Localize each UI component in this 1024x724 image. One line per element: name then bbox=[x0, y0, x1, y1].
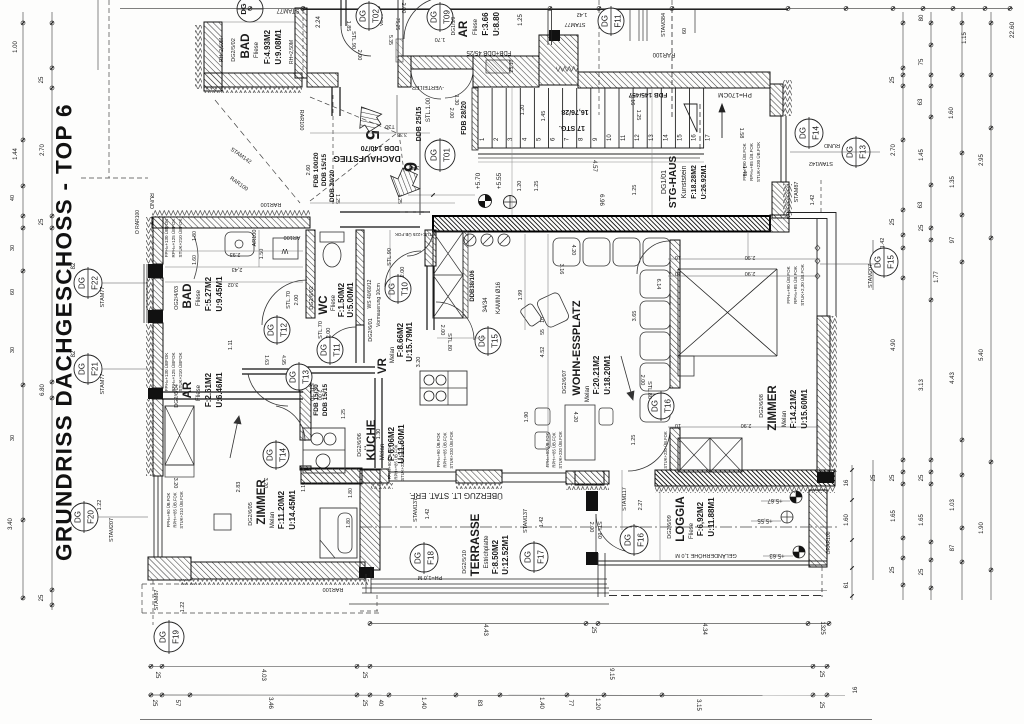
corridor south wall west part bbox=[152, 217, 310, 228]
svg-text:25: 25 bbox=[890, 218, 896, 225]
svg-text:DG: DG bbox=[601, 15, 610, 27]
svg-text:F15: F15 bbox=[887, 255, 896, 269]
svg-text:4.43: 4.43 bbox=[482, 624, 488, 636]
scan edge line bottom bbox=[140, 719, 872, 721]
svg-text:DG: DG bbox=[874, 256, 883, 268]
svg-text:6.14: 6.14 bbox=[655, 279, 661, 290]
svg-text:2.00: 2.00 bbox=[326, 328, 332, 339]
svg-text:25: 25 bbox=[871, 474, 877, 481]
svg-text:F:11.20M2: F:11.20M2 bbox=[277, 490, 286, 529]
svg-text:2.00: 2.00 bbox=[439, 325, 445, 336]
svg-text:STL.80: STL.80 bbox=[646, 381, 652, 399]
svg-text:U:9.08M1: U:9.08M1 bbox=[274, 29, 283, 65]
svg-text:DG: DG bbox=[430, 11, 439, 23]
svg-text:1.30: 1.30 bbox=[376, 429, 382, 440]
svg-text:RAR100: RAR100 bbox=[323, 586, 344, 592]
svg-text:1.63: 1.63 bbox=[263, 355, 269, 365]
ref circle DG T14 bbox=[263, 442, 289, 468]
svg-text:KAMIN Ø16: KAMIN Ø16 bbox=[496, 281, 502, 314]
svg-text:F18: F18 bbox=[427, 551, 436, 565]
loggia door arc F16 bbox=[596, 514, 634, 552]
dimension chain right col4 bbox=[990, 12, 992, 600]
interior dim lines BAD left bbox=[165, 250, 303, 252]
svg-text:+5.67: +5.67 bbox=[767, 497, 783, 503]
svg-text:DG: DG bbox=[430, 149, 439, 161]
nightstand bbox=[214, 514, 231, 530]
svg-text:DDB 140/70: DDB 140/70 bbox=[361, 144, 400, 151]
svg-text:2.24: 2.24 bbox=[316, 16, 322, 28]
svg-text:25: 25 bbox=[919, 474, 925, 481]
washbasin BAD left bbox=[225, 232, 254, 256]
svg-text:LOGGIA: LOGGIA bbox=[675, 496, 687, 541]
ref circle DG T16 bbox=[648, 393, 674, 419]
svg-text:STG-HAUS: STG-HAUS bbox=[668, 156, 679, 209]
svg-text:RPH=+85 ÜB.FOK: RPH=+85 ÜB.FOK bbox=[173, 492, 178, 527]
svg-text:TERRASSE: TERRASSE bbox=[470, 513, 482, 576]
svg-text:75: 75 bbox=[919, 58, 925, 65]
svg-text:1.25: 1.25 bbox=[632, 185, 638, 196]
svg-text:16,76/28: 16,76/28 bbox=[561, 108, 588, 115]
svg-text:FPH=+90 ÜB.FOK: FPH=+90 ÜB.FOK bbox=[436, 432, 441, 467]
svg-text:F:3.66: F:3.66 bbox=[481, 12, 490, 36]
svg-text:60: 60 bbox=[682, 28, 688, 34]
dim line BAD top bbox=[222, 21, 295, 23]
level mark circle bbox=[504, 196, 517, 209]
svg-text:25: 25 bbox=[919, 224, 925, 231]
svg-text:1.80: 1.80 bbox=[192, 231, 198, 241]
svg-text:U:9.45M1: U:9.45M1 bbox=[215, 276, 224, 312]
AR west wall lines bbox=[397, 0, 399, 56]
dimension chain top bbox=[120, 8, 1013, 10]
svg-text:1.90: 1.90 bbox=[524, 412, 530, 423]
svg-text:1.65: 1.65 bbox=[891, 510, 897, 522]
svg-text:DG: DG bbox=[651, 400, 660, 412]
svg-text:DG: DG bbox=[267, 324, 276, 336]
svg-text:U:8.80: U:8.80 bbox=[492, 11, 501, 36]
svg-text:BAD: BAD bbox=[182, 284, 194, 309]
svg-text:25: 25 bbox=[151, 700, 157, 707]
svg-text:STUK+230 ÜB.FOK: STUK+230 ÜB.FOK bbox=[663, 431, 668, 469]
svg-text:T02: T02 bbox=[372, 9, 381, 23]
svg-text:DACHAUFSTIEG: DACHAUFSTIEG bbox=[333, 154, 401, 164]
svg-text:75,25: 75,25 bbox=[394, 18, 400, 31]
right wall glazing upper bbox=[816, 218, 818, 316]
svg-text:1.35: 1.35 bbox=[950, 176, 956, 188]
door arc T16 bbox=[628, 429, 670, 471]
svg-text:1.42: 1.42 bbox=[425, 509, 431, 520]
loggia dashed bbox=[821, 567, 823, 597]
wall stub left of T02 door bbox=[340, 0, 342, 26]
svg-text:T15: T15 bbox=[491, 334, 500, 348]
svg-text:25: 25 bbox=[890, 474, 896, 481]
svg-text:DG: DG bbox=[289, 371, 298, 383]
svg-text:63: 63 bbox=[918, 201, 924, 208]
svg-text:STAM207: STAM207 bbox=[868, 264, 874, 288]
svg-text:1.10: 1.10 bbox=[301, 482, 307, 492]
terrace dashed edge bbox=[376, 595, 378, 611]
svg-text:16: 16 bbox=[853, 686, 859, 693]
svg-text:F:14.21M2: F:14.21M2 bbox=[789, 389, 798, 428]
svg-text:STL.90: STL.90 bbox=[350, 31, 356, 49]
vent circles bbox=[464, 234, 476, 246]
svg-text:F22: F22 bbox=[91, 276, 100, 290]
sofa right column bbox=[640, 270, 670, 298]
dimension chain bottom row1 bbox=[148, 665, 830, 667]
right exterior wall lower bbox=[817, 316, 830, 472]
svg-text:10: 10 bbox=[607, 134, 613, 141]
svg-text:T01: T01 bbox=[443, 148, 452, 162]
loggia west door blocks bbox=[586, 491, 598, 511]
svg-text:DG2/6/04: DG2/6/04 bbox=[174, 384, 180, 408]
svg-text:Vormauerung 10cm: Vormauerung 10cm bbox=[376, 283, 382, 327]
svg-text:DG: DG bbox=[414, 552, 423, 564]
svg-text:16: 16 bbox=[692, 134, 698, 141]
svg-text:6.96: 6.96 bbox=[598, 194, 604, 206]
dimension chain right col2 bbox=[930, 12, 932, 600]
svg-text:+5.70: +5.70 bbox=[475, 172, 482, 189]
partition BAD-AR horizontal bbox=[163, 391, 303, 393]
svg-text:F:4.93M2: F:4.93M2 bbox=[263, 29, 272, 64]
svg-text:30: 30 bbox=[10, 347, 16, 353]
ridge dash-dot line bbox=[360, 526, 840, 528]
svg-text:DG2/6/06: DG2/6/06 bbox=[357, 433, 363, 457]
svg-text:FPH=+90 ÜB.FOK: FPH=+90 ÜB.FOK bbox=[545, 432, 550, 467]
ref circle DG F17 bbox=[520, 543, 548, 571]
svg-text:22.60: 22.60 bbox=[1009, 21, 1016, 38]
svg-text:25: 25 bbox=[890, 76, 896, 83]
svg-text:F:8.66M2: F:8.66M2 bbox=[396, 322, 405, 357]
ref circle DG T11 bbox=[317, 337, 343, 363]
interior dim lines loggia bbox=[621, 470, 623, 530]
svg-text:1325: 1325 bbox=[819, 621, 825, 635]
south band WOHN windows bbox=[301, 469, 389, 483]
svg-text:T11: T11 bbox=[333, 343, 342, 357]
svg-text:3.20: 3.20 bbox=[262, 478, 268, 489]
svg-text:STAM117: STAM117 bbox=[622, 487, 628, 511]
svg-text:DG: DG bbox=[359, 10, 368, 22]
svg-text:STUK+225 ÜB.FOK: STUK+225 ÜB.FOK bbox=[395, 232, 435, 238]
svg-text:1.20: 1.20 bbox=[517, 181, 523, 192]
svg-text:2.00: 2.00 bbox=[356, 50, 362, 61]
svg-text:30: 30 bbox=[10, 245, 16, 251]
svg-text:PH=170CM: PH=170CM bbox=[718, 91, 752, 98]
door arc T14 bbox=[276, 406, 305, 441]
svg-text:DG: DG bbox=[78, 363, 87, 375]
svg-text:STAM142: STAM142 bbox=[809, 160, 833, 166]
svg-text:1.45: 1.45 bbox=[541, 111, 547, 122]
svg-text:T30: T30 bbox=[385, 123, 394, 129]
svg-text:1.45: 1.45 bbox=[919, 149, 925, 161]
door arc T15 bbox=[436, 302, 474, 340]
svg-text:3.38: 3.38 bbox=[397, 131, 407, 137]
svg-text:STUK+230 ÜB.FOK: STUK+230 ÜB.FOK bbox=[558, 431, 563, 469]
svg-text:AR: AR bbox=[182, 381, 194, 398]
svg-text:T16: T16 bbox=[664, 399, 673, 413]
stair direction triangle bbox=[684, 104, 697, 132]
heavy black wall south of stair bbox=[433, 216, 770, 232]
svg-text:5.40: 5.40 bbox=[979, 349, 985, 361]
kitchen cooktop block bbox=[420, 371, 467, 405]
svg-text:RPH=+85 ÜB.FOK: RPH=+85 ÜB.FOK bbox=[552, 432, 557, 467]
svg-text:U:11.88M1: U:11.88M1 bbox=[707, 497, 716, 537]
partition VR-KUECHE bbox=[303, 366, 375, 368]
svg-text:1.40: 1.40 bbox=[420, 697, 426, 709]
svg-text:U:15.60M1: U:15.60M1 bbox=[800, 389, 809, 429]
svg-text:STAM87: STAM87 bbox=[794, 182, 800, 203]
svg-text:1.42: 1.42 bbox=[539, 517, 545, 528]
svg-text:Fliese: Fliese bbox=[254, 41, 260, 58]
svg-text:F11: F11 bbox=[614, 14, 623, 28]
svg-text:4.52: 4.52 bbox=[540, 347, 546, 358]
svg-text:STUK+230 ÜB.FOK: STUK+230 ÜB.FOK bbox=[400, 443, 405, 481]
svg-text:RUND: RUND bbox=[824, 142, 840, 148]
svg-text:FPH=+90 ÜB.FOK: FPH=+90 ÜB.FOK bbox=[741, 143, 747, 180]
svg-text:STAM77: STAM77 bbox=[100, 287, 106, 308]
stair right window bbox=[780, 116, 782, 182]
bed ZIMMER right X boxes bbox=[678, 438, 742, 472]
ref circle DG T15 bbox=[475, 328, 501, 354]
bottom wall of ZIMMER left bbox=[191, 562, 365, 579]
svg-text:STUK+230 ÜB.FOK: STUK+230 ÜB.FOK bbox=[449, 431, 454, 469]
left exterior wall bbox=[153, 217, 163, 264]
svg-text:25: 25 bbox=[39, 594, 45, 601]
svg-text:U:18.20M1: U:18.20M1 bbox=[603, 355, 612, 395]
door arc T10 bbox=[385, 251, 421, 287]
svg-text:4.95: 4.95 bbox=[280, 355, 286, 365]
svg-text:80: 80 bbox=[919, 14, 925, 21]
svg-text:STAM384: STAM384 bbox=[661, 13, 667, 37]
dashed line top bbox=[598, 0, 600, 115]
svg-text:DG1/5/0: DG1/5/0 bbox=[451, 16, 457, 35]
svg-text:3.40: 3.40 bbox=[8, 518, 14, 530]
sofa top row bbox=[553, 238, 580, 266]
corner block stair west bbox=[539, 35, 578, 85]
svg-text:1.15: 1.15 bbox=[962, 32, 968, 44]
svg-text:63: 63 bbox=[918, 98, 924, 105]
svg-text:W: W bbox=[281, 247, 288, 254]
svg-text:25: 25 bbox=[361, 672, 367, 679]
terrace rails bbox=[371, 578, 607, 580]
dachaufstieg dashed lines bbox=[310, 97, 397, 133]
svg-text:F17: F17 bbox=[537, 550, 546, 564]
svg-text:2.70: 2.70 bbox=[40, 144, 46, 156]
svg-text:F:20.21M2: F:20.21M2 bbox=[592, 355, 601, 394]
wardrobe X box bbox=[165, 406, 194, 465]
chimney block bbox=[433, 232, 463, 318]
svg-text:1.60: 1.60 bbox=[192, 255, 198, 265]
svg-text:U:5.00M1: U:5.00M1 bbox=[346, 282, 355, 318]
svg-text:1.25: 1.25 bbox=[534, 181, 540, 192]
stepped wall above corridor bbox=[398, 56, 411, 87]
ref circle DG T09 bbox=[427, 4, 453, 30]
ref circle DG F16 bbox=[620, 526, 648, 554]
washer box AR100 bbox=[273, 238, 298, 259]
wall left of BAD top bbox=[204, 22, 222, 91]
roof hatch arrow big bbox=[384, 165, 425, 204]
stair right wall lower bbox=[772, 182, 789, 218]
svg-text:DDB 25/15: DDB 25/15 bbox=[416, 107, 423, 142]
svg-text:FPH=+130 ÜBFOK: FPH=+130 ÜBFOK bbox=[163, 353, 169, 392]
dashed vertical near BAD bbox=[302, 10, 304, 70]
dashed roof line BAD bbox=[215, 100, 300, 203]
svg-text:1.90: 1.90 bbox=[979, 522, 985, 534]
svg-text:OG2/4/03: OG2/4/03 bbox=[174, 286, 180, 310]
svg-text:Melan: Melan bbox=[380, 444, 386, 460]
svg-text:STUK+230 ÜB.FOK: STUK+230 ÜB.FOK bbox=[755, 142, 761, 182]
svg-text:16: 16 bbox=[844, 479, 850, 486]
svg-text:DG: DG bbox=[524, 551, 533, 563]
svg-text:T14: T14 bbox=[279, 448, 288, 462]
svg-text:1.44: 1.44 bbox=[13, 148, 19, 160]
slope arrow WOHN bbox=[621, 356, 632, 396]
svg-text:25: 25 bbox=[590, 627, 596, 634]
svg-text:2.95: 2.95 bbox=[979, 154, 985, 166]
leader to F15 bbox=[820, 263, 878, 265]
svg-text:DDB 15/15: DDB 15/15 bbox=[322, 384, 329, 417]
svg-text:STAM87: STAM87 bbox=[154, 590, 160, 611]
svg-text:STAM77: STAM77 bbox=[565, 21, 586, 27]
svg-text:1.58: 1.58 bbox=[738, 128, 744, 139]
svg-text:87: 87 bbox=[950, 544, 956, 551]
svg-text:25: 25 bbox=[39, 76, 45, 83]
svg-text:FDB 28/20: FDB 28/20 bbox=[461, 101, 468, 135]
svg-text:Kunststein: Kunststein bbox=[681, 166, 688, 199]
svg-text:25: 25 bbox=[361, 700, 367, 707]
svg-text:5.35: 5.35 bbox=[387, 35, 393, 45]
svg-text:F21: F21 bbox=[91, 362, 100, 376]
svg-text:Estrichplatte: Estrichplatte bbox=[484, 535, 490, 569]
svg-text:FPH=+130 ÜBFOK: FPH=+130 ÜBFOK bbox=[163, 219, 169, 258]
svg-text:STUK+2,30 ÜB.FOK: STUK+2,30 ÜB.FOK bbox=[799, 264, 805, 305]
svg-text:14: 14 bbox=[663, 134, 669, 141]
bottom dashed box bbox=[141, 584, 143, 613]
svg-text:4.43: 4.43 bbox=[950, 372, 956, 384]
svg-text:3.15: 3.15 bbox=[695, 699, 701, 711]
svg-text:1.70: 1.70 bbox=[435, 36, 446, 42]
svg-text:3.40: 3.40 bbox=[409, 164, 420, 170]
svg-text:DG2/6/01: DG2/6/01 bbox=[368, 318, 374, 342]
loggia east wall bbox=[809, 490, 827, 567]
stair right wall upper bbox=[770, 84, 783, 116]
svg-text:DG: DG bbox=[320, 344, 329, 356]
svg-text:1.22: 1.22 bbox=[180, 602, 186, 613]
wall ZIMMER-LOGGIA band bbox=[655, 470, 835, 486]
svg-text:RPH=+85 ÜB.FOK: RPH=+85 ÜB.FOK bbox=[748, 143, 754, 181]
svg-text:T13: T13 bbox=[302, 370, 311, 384]
partition BAD-WC bbox=[306, 230, 315, 318]
stair house north structure bbox=[547, 10, 549, 45]
ref circle DG F20 bbox=[70, 503, 98, 531]
svg-text:DDB38/106: DDB38/106 bbox=[470, 270, 476, 302]
svg-text:3.20: 3.20 bbox=[172, 478, 178, 489]
svg-text:1.99: 1.99 bbox=[518, 290, 524, 301]
svg-text:5: 5 bbox=[362, 130, 382, 140]
svg-text:DG2/5/02: DG2/5/02 bbox=[231, 38, 237, 62]
svg-text:STAM207: STAM207 bbox=[109, 518, 115, 542]
interior dim lines stair hall bbox=[478, 161, 704, 163]
svg-text:BAD: BAD bbox=[240, 34, 252, 59]
svg-text:2.00: 2.00 bbox=[639, 375, 645, 386]
ref circle DG T12 bbox=[264, 317, 290, 343]
wall spur right of BAD bbox=[307, 73, 338, 87]
svg-text:1.25: 1.25 bbox=[635, 110, 641, 121]
svg-text:DG: DG bbox=[78, 277, 87, 289]
bed ZIMMER left bbox=[320, 508, 357, 558]
slope arrow ZIMMER left bbox=[230, 420, 238, 458]
svg-text:U:6.46M1: U:6.46M1 bbox=[215, 372, 224, 408]
roof hatch arrow small bbox=[351, 100, 386, 135]
dining table bbox=[565, 405, 595, 460]
wall WOHN-ZIMMER partition bbox=[670, 240, 680, 388]
terrace west wall bbox=[360, 470, 380, 570]
svg-text:DG: DG bbox=[266, 449, 275, 461]
left bottom corner wall bbox=[148, 557, 191, 580]
svg-text:1.20: 1.20 bbox=[520, 105, 526, 116]
door arc T09 bbox=[404, 0, 446, 39]
svg-text:40: 40 bbox=[10, 195, 16, 201]
svg-text:83: 83 bbox=[476, 700, 482, 707]
svg-text:U:26.92M1: U:26.92M1 bbox=[701, 165, 708, 200]
svg-text:17: 17 bbox=[706, 134, 712, 141]
svg-text:ZIMMER: ZIMMER bbox=[767, 385, 779, 431]
svg-text:25,10: 25,10 bbox=[509, 60, 515, 73]
svg-text:2.00: 2.00 bbox=[400, 267, 406, 278]
svg-text:STAM77: STAM77 bbox=[100, 374, 106, 395]
svg-text:61: 61 bbox=[844, 581, 850, 588]
svg-text:F:5.27M2: F:5.27M2 bbox=[204, 276, 213, 311]
roof window X pattern bbox=[678, 268, 777, 270]
svg-text:1.65: 1.65 bbox=[919, 514, 925, 526]
svg-text:55: 55 bbox=[540, 329, 546, 335]
corridor wall middle thin bbox=[340, 211, 430, 213]
door jamb wall x332 bbox=[331, 87, 333, 116]
svg-text:1.25: 1.25 bbox=[631, 435, 637, 446]
svg-text:1.25: 1.25 bbox=[396, 194, 402, 204]
svg-text:1.42: 1.42 bbox=[810, 195, 816, 206]
svg-text:DG: DG bbox=[239, 3, 248, 14]
svg-text:6.80: 6.80 bbox=[40, 384, 46, 396]
top boundary line bbox=[303, 9, 788, 11]
dimension chain bottom row0 bbox=[370, 623, 830, 625]
svg-text:DG2/6/07: DG2/6/07 bbox=[562, 370, 568, 394]
ref circle DG T01 bbox=[425, 140, 455, 170]
svg-text:25: 25 bbox=[890, 566, 896, 573]
svg-text:F:1.50M2: F:1.50M2 bbox=[337, 282, 346, 317]
wall below BAD top bbox=[204, 73, 302, 87]
svg-text:STL.80: STL.80 bbox=[446, 333, 452, 351]
svg-text:1.60: 1.60 bbox=[949, 107, 955, 119]
svg-text:25: 25 bbox=[818, 671, 824, 678]
interior dim lines WOHN bbox=[547, 234, 549, 468]
svg-text:T12: T12 bbox=[280, 323, 289, 337]
svg-text:FPH=+90 ÜB.FOK: FPH=+90 ÜB.FOK bbox=[785, 266, 791, 303]
svg-text:40: 40 bbox=[377, 700, 383, 707]
svg-text:RUND: RUND bbox=[148, 193, 154, 209]
svg-text:4.20: 4.20 bbox=[570, 245, 576, 256]
svg-text:9.15: 9.15 bbox=[608, 668, 614, 680]
wall right of BAD top bbox=[295, 8, 307, 78]
svg-text:STUK+210 ÜBFOK: STUK+210 ÜBFOK bbox=[177, 219, 183, 258]
svg-text:1.25: 1.25 bbox=[334, 194, 340, 204]
svg-text:25: 25 bbox=[818, 702, 824, 709]
svg-text:Melan: Melan bbox=[585, 386, 591, 402]
svg-text:AR100: AR100 bbox=[252, 230, 258, 247]
svg-text:1.77: 1.77 bbox=[934, 271, 940, 283]
svg-text:RAR100: RAR100 bbox=[261, 201, 282, 207]
svg-text:FPH=+90 ÜB.FOK: FPH=+90 ÜB.FOK bbox=[166, 492, 171, 527]
svg-text:Melan: Melan bbox=[782, 411, 788, 427]
svg-text:DG: DG bbox=[624, 534, 633, 546]
